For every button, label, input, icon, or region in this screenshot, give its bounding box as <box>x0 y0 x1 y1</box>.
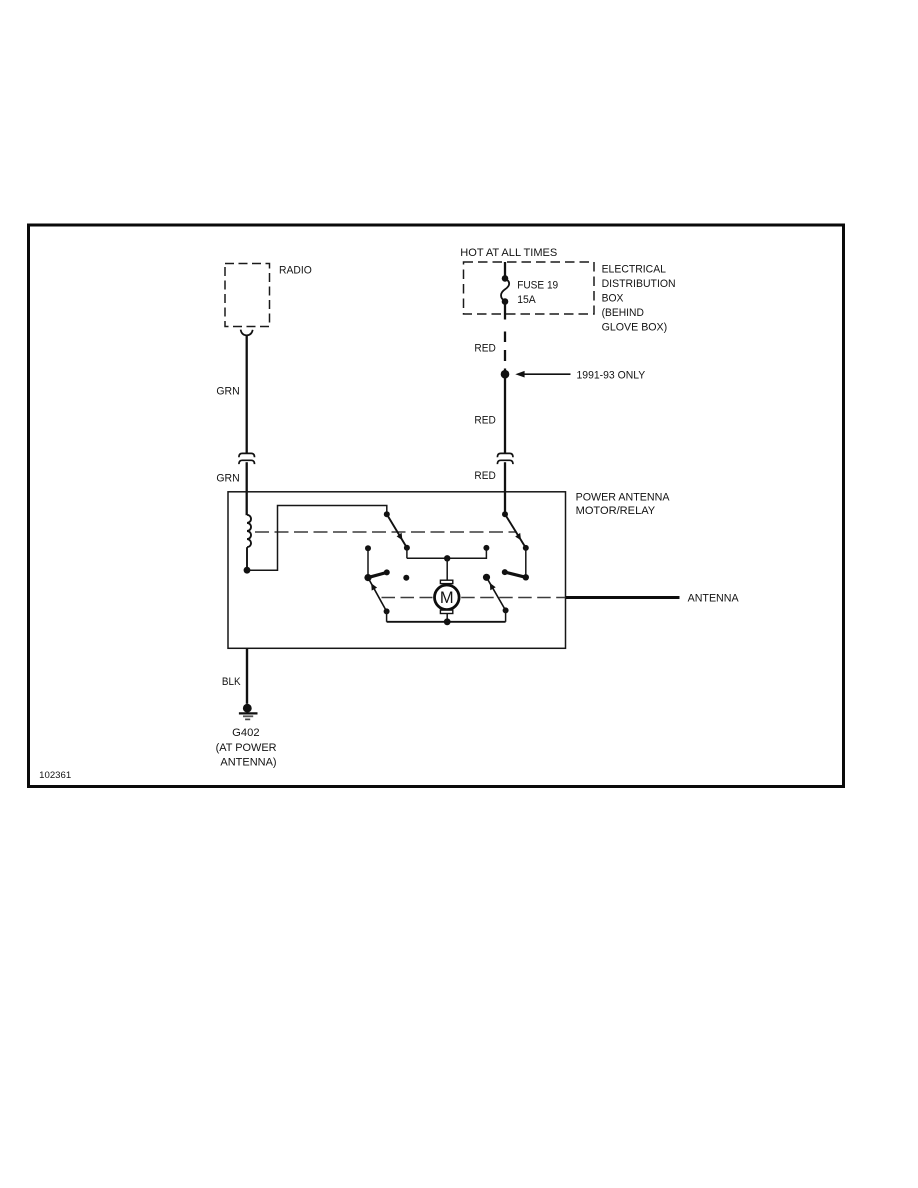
svg-text:BLK: BLK <box>222 676 241 688</box>
wire: fuse to dashed RED segment <box>504 305 506 320</box>
border frame (decorative) <box>29 225 844 787</box>
dashed mechanical line (motor to antenna) <box>382 597 433 599</box>
wire: motor bottom bus <box>387 621 506 623</box>
splice node 1991-93 <box>501 370 510 379</box>
wire: S4 lower contact to bottom bus <box>505 610 507 621</box>
limit switch S3 (left) <box>364 545 389 614</box>
wire: motor top bus <box>407 548 487 558</box>
svg-text:RED: RED <box>474 414 495 426</box>
wire BLK: relay box to ground <box>246 648 248 704</box>
relay switch S1 <box>384 511 410 551</box>
antenna output link <box>566 596 680 599</box>
svg-text:RED: RED <box>474 470 495 482</box>
wire: S1 contact down to motor top bus <box>406 548 408 559</box>
svg-text:1991-93 ONLY: 1991-93 ONLY <box>577 370 646 382</box>
svg-text:FUSE 19: FUSE 19 <box>517 280 558 292</box>
limit switch S4 (right) <box>483 569 529 613</box>
relay coil L1 <box>247 515 251 547</box>
svg-text:HOT AT ALL TIMES: HOT AT ALL TIMES <box>460 247 557 259</box>
node: coil/ground junction <box>244 567 251 574</box>
svg-text:102361: 102361 <box>39 770 71 781</box>
wire: fuse feed from box top <box>504 262 506 277</box>
dashed actuating line (coil to relay switches) <box>255 531 516 533</box>
svg-text:RADIO: RADIO <box>279 265 312 277</box>
svg-text:15A: 15A <box>517 294 536 306</box>
inline connector C2 on RED wire <box>497 453 513 457</box>
node: motor top junction <box>444 555 450 561</box>
wire GRN: radio to inline connector <box>246 335 248 453</box>
wire GRN: connector into relay box to coil <box>246 462 248 515</box>
wire: coil bottom to junction <box>246 547 248 570</box>
node: motor bottom junction <box>444 618 451 625</box>
wire RED: splice to inline connector <box>504 374 506 453</box>
power antenna motor/relay box <box>228 492 566 649</box>
relay switch S2 <box>502 511 529 551</box>
svg-text:ANTENNA: ANTENNA <box>688 593 740 605</box>
wire RED: connector into relay box to switch S2 <box>504 462 506 514</box>
electrical distribution box (dashed) <box>464 262 595 314</box>
ground G402 <box>239 704 258 720</box>
motor M1 <box>435 558 460 622</box>
fuse FUSE 19 15A <box>501 275 509 305</box>
node: isolated contact dot <box>403 575 409 581</box>
wire: S3 lower contact to bottom bus <box>386 611 388 621</box>
wire: junction up-and-over to switch S1 pivot <box>247 506 387 571</box>
radio unit (dashed box) <box>225 264 270 327</box>
arrow pointer 1991-93 ONLY <box>515 371 570 378</box>
svg-text:M: M <box>440 589 454 607</box>
svg-text:GRN: GRN <box>216 386 239 398</box>
wire RED dashed (fuse box to 1991-93 splice) <box>504 332 506 343</box>
svg-text:GRN: GRN <box>216 473 239 485</box>
node: bus end contact <box>483 545 489 551</box>
radio connector cup <box>241 330 253 336</box>
inline connector C1 on GRN wire <box>239 453 255 457</box>
svg-text:RED: RED <box>474 342 495 354</box>
wire: S2 contact down to limit switch arm <box>525 548 527 577</box>
